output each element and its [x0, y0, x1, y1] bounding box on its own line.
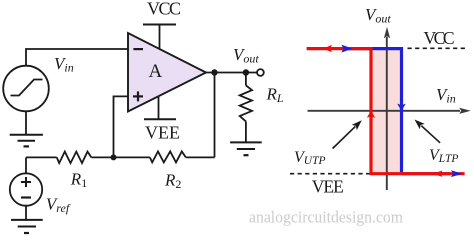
svg-text:R1: R1 [70, 170, 87, 191]
svg-text:VEE: VEE [145, 123, 180, 143]
svg-text:A: A [149, 61, 163, 82]
svg-text:VCC: VCC [424, 28, 455, 48]
svg-text:VEE: VEE [312, 177, 344, 197]
svg-text:Vout: Vout [233, 45, 259, 66]
svg-text:VLTP: VLTP [429, 147, 458, 165]
svg-text:Vin: Vin [54, 54, 74, 75]
svg-text:Vref: Vref [46, 195, 71, 216]
svg-text:VCC: VCC [147, 0, 181, 19]
svg-text:analogcircuitdesign.com: analogcircuitdesign.com [249, 208, 403, 227]
svg-text:R2: R2 [164, 171, 181, 192]
svg-text:RL: RL [266, 85, 284, 106]
svg-text:Vin: Vin [436, 85, 456, 106]
svg-text:VUTP: VUTP [294, 149, 326, 167]
svg-text:Vout: Vout [365, 5, 391, 26]
